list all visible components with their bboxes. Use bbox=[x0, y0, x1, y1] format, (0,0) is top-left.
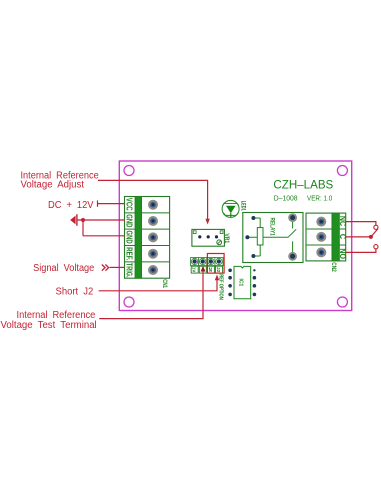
svg-text:GND: GND bbox=[125, 231, 134, 244]
CN1 terminal 4 (REF) bbox=[148, 249, 158, 259]
CN1 reference designator bbox=[161, 279, 167, 288]
CN1 terminal 5 (TRIG) bbox=[148, 265, 158, 275]
NC contact circle bbox=[374, 225, 378, 229]
VR1 reference designator bbox=[223, 233, 230, 243]
svg-text:VER: 1.0: VER: 1.0 bbox=[307, 194, 332, 203]
annotation text: Short J2 bbox=[56, 286, 94, 297]
J2 pin1 label box bbox=[191, 266, 198, 273]
svg-text:GND: GND bbox=[125, 214, 134, 227]
silkscreen title CZH-LABS bbox=[273, 180, 333, 192]
CN2 reference designator bbox=[330, 262, 336, 272]
signal chevron symbol bbox=[102, 265, 109, 271]
svg-text:Voltage Adjust: Voltage Adjust bbox=[21, 179, 85, 190]
svg-text:REF.: REF. bbox=[125, 247, 134, 261]
header J2 pin 2 bbox=[199, 258, 207, 266]
CN1 pin label REF. bbox=[125, 247, 134, 261]
svg-text:REF OPTION: REF OPTION bbox=[218, 274, 224, 300]
svg-text:VR1: VR1 bbox=[223, 233, 230, 243]
IC1 reference designator bbox=[238, 279, 244, 287]
J2 pin2 label box bbox=[199, 266, 206, 273]
NO contact circle bbox=[374, 245, 378, 249]
CN1 terminal 2 (GND) bbox=[148, 216, 158, 226]
svg-text:Signal Voltage: Signal Voltage bbox=[33, 263, 95, 274]
CN2 pin label NC bbox=[338, 216, 348, 226]
IC U1 (IC1) bbox=[228, 266, 256, 298]
svg-text:J2: J2 bbox=[216, 267, 221, 273]
trimmer potentiometer VR1 bbox=[192, 229, 225, 246]
annotation text: Internal Reference Voltage Test Terminal bbox=[1, 310, 97, 331]
svg-text:CN1: CN1 bbox=[161, 279, 167, 288]
mounting hole top-left bbox=[124, 166, 134, 176]
relay RELAY1 bbox=[243, 213, 303, 263]
board outline bbox=[119, 161, 351, 311]
ground symbol (common arrow) bbox=[70, 214, 77, 226]
wire DC +12V to VCC terminal bbox=[98, 200, 126, 206]
svg-text:LED1: LED1 bbox=[239, 201, 246, 211]
svg-text:Short J2: Short J2 bbox=[56, 286, 94, 297]
annotation text: Internal Reference Voltage Adjust bbox=[21, 170, 100, 190]
leader line to J2 short box bbox=[99, 275, 220, 291]
CN1 terminal 1 (VCC) bbox=[148, 200, 158, 210]
CN2 terminal 3 (NO) bbox=[316, 247, 326, 257]
CN1 pin label GND (row3) bbox=[125, 231, 134, 244]
silkscreen label D-1008 bbox=[274, 194, 298, 203]
header J2 pin 4 bbox=[215, 258, 223, 266]
terminal block CN1 bbox=[125, 197, 170, 279]
svg-text:TRIG.: TRIG. bbox=[125, 263, 134, 278]
wire GND terminals to common point bbox=[77, 218, 125, 236]
svg-text:D–1008: D–1008 bbox=[274, 194, 298, 203]
svg-text:IC1: IC1 bbox=[238, 279, 244, 287]
highlight box around J2 short pins bbox=[207, 254, 224, 274]
mounting hole bottom-left bbox=[124, 297, 134, 307]
CN2 terminal 2 (C) bbox=[316, 232, 326, 242]
header J2 pin 3 bbox=[207, 258, 215, 266]
svg-text:NO: NO bbox=[338, 248, 348, 259]
wire NC contact bbox=[346, 222, 376, 226]
mounting hole top-right bbox=[337, 166, 347, 176]
svg-text:Voltage Test Terminal: Voltage Test Terminal bbox=[1, 320, 97, 331]
wire Signal Voltage to TRIG terminal bbox=[110, 266, 125, 268]
svg-text:RELAY1: RELAY1 bbox=[269, 218, 276, 237]
svg-text:VCC: VCC bbox=[125, 198, 134, 211]
CN2 pin label C bbox=[338, 234, 348, 239]
J2 pin3 label box bbox=[207, 266, 214, 274]
CN1 pin label GND (row2) bbox=[125, 214, 134, 227]
annotation text: DC + 12V bbox=[48, 200, 94, 211]
silkscreen label VER: 1.0 bbox=[307, 194, 332, 203]
CN1 pin label TRIG. bbox=[125, 263, 134, 278]
svg-text:DC + 12V: DC + 12V bbox=[48, 200, 94, 211]
CN1 terminal 3 (GND) bbox=[148, 232, 158, 242]
CN1 pin label VCC bbox=[125, 198, 134, 211]
CN2 pin label NO bbox=[338, 248, 348, 259]
wire NO contact bbox=[346, 249, 376, 253]
silkscreen label REF OPTION bbox=[218, 274, 224, 300]
svg-text:CZH–LABS: CZH–LABS bbox=[273, 180, 333, 192]
mounting hole bottom-right bbox=[337, 297, 347, 307]
RELAY1 reference designator bbox=[269, 218, 276, 237]
terminal block CN2 bbox=[306, 213, 346, 261]
J2 pin4 label box bbox=[216, 266, 223, 273]
header J2 pin 1 bbox=[191, 258, 199, 266]
svg-text:CN2: CN2 bbox=[330, 262, 336, 272]
wire C (common) bbox=[346, 236, 369, 238]
switch blade bbox=[371, 229, 378, 237]
annotation text: Signal Voltage bbox=[33, 263, 95, 274]
switch common node bbox=[369, 235, 373, 239]
svg-text:1V: 1V bbox=[192, 267, 197, 273]
leader line to J2 pin 2 (test terminal) bbox=[99, 266, 205, 319]
LED LED1 bbox=[222, 200, 239, 217]
leader line to VR1 bbox=[98, 180, 210, 224]
LED1 reference designator bbox=[239, 201, 246, 211]
CN2 terminal 1 (NC) bbox=[316, 217, 326, 227]
